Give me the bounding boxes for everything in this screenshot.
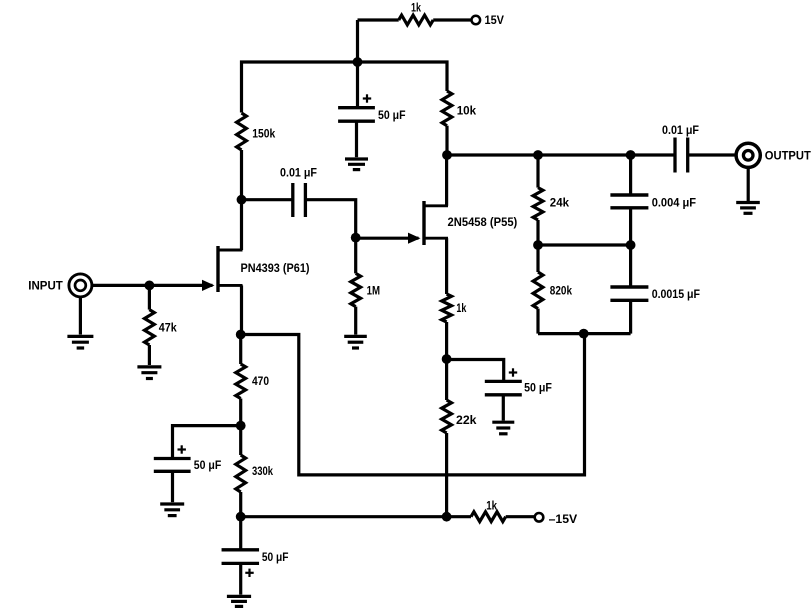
wire (239, 335, 242, 426)
terminal -15V (535, 512, 577, 526)
wire (447, 360, 504, 382)
svg-text:330k: 330k (252, 464, 273, 478)
wire (148, 285, 151, 309)
wire (173, 426, 241, 459)
node input (145, 281, 155, 291)
capacitor 0.01uF (interstage) (280, 165, 317, 217)
resistor 1k (to +15V) (399, 1, 434, 25)
svg-text:1M: 1M (367, 284, 380, 298)
svg-text:0.0015 μF: 0.0015 μF (652, 287, 700, 301)
wire (242, 198, 293, 201)
wire (305, 200, 355, 238)
resistor 330k (236, 455, 273, 492)
capacitor 50uF (supply bypass) (338, 94, 405, 122)
connector OUTPUT (736, 143, 811, 167)
capacitor 50uF (left) (154, 445, 222, 472)
wire (354, 307, 357, 335)
wire (93, 284, 202, 287)
svg-text:2N5458 (P55): 2N5458 (P55) (448, 215, 518, 229)
svg-text:820k: 820k (550, 283, 572, 297)
wire (355, 121, 358, 157)
node divider mid (533, 240, 543, 250)
wire (445, 155, 448, 206)
transistor Q1 PN4393 (P61) (202, 246, 310, 292)
svg-text:50 μF: 50 μF (262, 550, 289, 564)
resistor 150k (237, 113, 276, 150)
wire (354, 238, 357, 274)
ground (50uF left) (160, 504, 184, 516)
node -15V rail (442, 512, 452, 522)
wire (171, 471, 174, 502)
svg-text:1k: 1k (486, 499, 497, 513)
wire (536, 245, 539, 334)
resistor 24k (533, 188, 569, 220)
resistor 1M (351, 273, 380, 306)
ground (input jack) (67, 336, 93, 348)
svg-text:INPUT: INPUT (28, 280, 63, 292)
node supply junction (353, 57, 363, 67)
node Q2 gate (351, 233, 361, 243)
wire (629, 245, 632, 334)
svg-text:22k: 22k (456, 413, 477, 427)
wire (358, 20, 472, 62)
node Q2 source bypass (442, 354, 452, 364)
svg-text:1k: 1k (411, 1, 421, 15)
wire (356, 62, 359, 108)
wire (239, 563, 242, 594)
wire (148, 345, 151, 365)
wire (445, 126, 448, 155)
capacitor 50uF (source bypass) (485, 368, 552, 395)
wire (688, 153, 736, 156)
wire (241, 515, 471, 518)
node 0.0015uF top (626, 240, 636, 250)
resistor 1k (Q2 source) (442, 294, 467, 322)
wire (538, 243, 631, 246)
svg-text:10k: 10k (457, 103, 477, 117)
ground (source bypass) (492, 422, 514, 434)
wire (239, 517, 242, 550)
svg-text:15V: 15V (485, 13, 505, 27)
ground (output jack) (736, 203, 760, 214)
svg-text:OUTPUT: OUTPUT (765, 151, 811, 163)
svg-text:PN4393 (P61): PN4393 (P61) (241, 261, 310, 275)
wire (240, 200, 243, 250)
resistor 820k (533, 272, 572, 309)
wire (445, 238, 448, 294)
capacitor 50uF (bottom) (222, 550, 289, 577)
node 330k bottom (236, 512, 246, 522)
connector INPUT (28, 274, 92, 297)
svg-text:50 μF: 50 μF (378, 108, 406, 122)
wire (536, 155, 539, 245)
svg-text:150k: 150k (252, 127, 275, 141)
resistor 22k (442, 400, 477, 433)
wire (240, 285, 243, 334)
capacitor 0.004uF (610, 195, 696, 209)
node Q1 source (236, 330, 246, 340)
wire (445, 322, 448, 359)
node Q1 drain (237, 195, 247, 205)
wire (239, 426, 242, 517)
svg-text:24k: 24k (550, 195, 570, 209)
node feedback (579, 329, 589, 339)
wire (506, 515, 536, 518)
node output rail left (442, 150, 452, 160)
wire (445, 359, 448, 517)
wire (747, 168, 750, 202)
resistor 47k (145, 310, 177, 345)
resistor 470 (236, 364, 269, 399)
ground (1M) (344, 336, 367, 348)
ground (supply bypass) (345, 159, 368, 170)
svg-text:0.01 μF: 0.01 μF (280, 165, 317, 179)
svg-text:0.01 μF: 0.01 μF (662, 123, 699, 137)
svg-text:50 μF: 50 μF (524, 381, 552, 395)
node 24k top (533, 150, 543, 160)
capacitor 0.0015uF (610, 287, 700, 301)
wire (79, 297, 82, 335)
svg-text:0.004 μF: 0.004 μF (652, 195, 696, 209)
resistor 10k (442, 91, 476, 126)
wire (538, 332, 631, 335)
node 0.004uF top (626, 150, 636, 160)
svg-text:47k: 47k (159, 321, 177, 335)
capacitor 0.01uF (output) (662, 123, 699, 173)
wire (242, 62, 448, 113)
svg-text:1k: 1k (456, 301, 466, 315)
svg-text:470: 470 (252, 374, 269, 388)
wire (502, 395, 505, 421)
svg-text:–15V: –15V (549, 512, 578, 526)
wire (629, 155, 632, 245)
node 470/330k (236, 421, 246, 431)
wire (240, 150, 243, 200)
wire (447, 153, 675, 156)
ground (47k) (137, 367, 161, 379)
ground (50uF bottom) (227, 596, 251, 606)
svg-text:50 μF: 50 μF (194, 458, 222, 472)
wire (feedback run) (241, 334, 585, 475)
terminal +15V (472, 13, 505, 27)
resistor 1k (to -15V) (471, 499, 506, 522)
transistor Q2 2N5458 (P55) (357, 201, 517, 245)
